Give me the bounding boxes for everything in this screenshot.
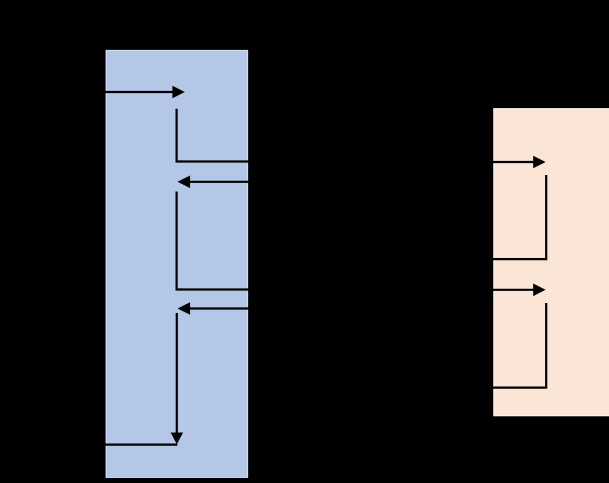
wire: down-then-right in blue box (second) — [177, 192, 262, 290]
arrowhead: left-pointing, upper return into blue box — [178, 176, 191, 189]
arrowhead: right-pointing, lower call into peach box — [533, 284, 545, 297]
arrowhead: down-pointing, bottom of blue box — [171, 433, 184, 445]
wire: return arrow shaft into blue box (lower) — [190, 307, 263, 309]
wire: final downward shaft in blue box — [176, 313, 178, 434]
wire: down-then-right in blue box — [177, 109, 262, 162]
peach process box inner highlight edge — [494, 109, 609, 416]
blue process box — [106, 50, 249, 479]
wire: call arrow shaft into peach box (lower) — [450, 289, 534, 291]
wire: down-then-left in peach box (upper) — [450, 175, 546, 259]
wire: down-then-left in peach box (lower) — [450, 303, 546, 388]
wire: bottom exit line leaving blue box to the left — [55, 444, 177, 446]
blue process box inner highlight edge — [106, 51, 247, 479]
wire: entry arrow shaft into blue box — [55, 91, 174, 93]
wire: return arrow shaft into blue box (upper) — [190, 181, 263, 183]
wire: call arrow shaft into peach box (upper) — [450, 161, 534, 163]
arrowhead: right-pointing, entry into blue box — [172, 86, 184, 99]
arrowhead: right-pointing, upper call into peach box — [533, 156, 545, 169]
arrowhead: left-pointing, lower return into blue box — [178, 302, 191, 315]
peach process box — [493, 108, 609, 416]
